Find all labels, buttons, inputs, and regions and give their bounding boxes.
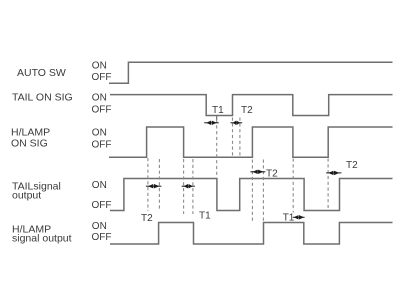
tick below TAIL ON SIG off line: [216, 116, 218, 120]
svg-text:ON: ON: [92, 180, 107, 191]
waveform H/LAMP ON SIG: [109, 127, 393, 157]
svg-text:signal output: signal output: [12, 233, 72, 245]
arrow pair P7 T1 bottom right: [293, 215, 305, 219]
waveform H/LAMP signal output: [110, 223, 393, 245]
svg-text:T2: T2: [141, 213, 153, 224]
arrow pair P4 T1 mid: [182, 184, 195, 188]
svg-text:T2: T2: [241, 105, 253, 116]
dashed line D x=192.9: [192, 159, 194, 214]
svg-text:TAIL ON SIG: TAIL ON SIG: [12, 92, 73, 104]
waveform TAIL ON SIG: [110, 95, 393, 116]
waveform TAIL signal output: [110, 179, 393, 211]
arrow pair P1 T1 row2: [204, 121, 219, 125]
svg-text:OFF: OFF: [92, 139, 112, 150]
waveform AUTO SW: [109, 62, 393, 83]
svg-text:T1: T1: [199, 211, 211, 222]
svg-text:OFF: OFF: [92, 200, 112, 211]
svg-text:ON: ON: [92, 61, 107, 72]
svg-text:T2: T2: [346, 160, 358, 171]
svg-text:OFF: OFF: [92, 105, 112, 116]
dashed line E x=216.7: [216, 120, 218, 178]
svg-text:OFF: OFF: [92, 72, 112, 83]
svg-text:ON: ON: [92, 127, 107, 138]
dashed line C x=183.6: [183, 159, 185, 214]
dashed line F x=232.5: [232, 118, 234, 158]
svg-text:AUTO SW: AUTO SW: [17, 67, 66, 79]
arrow pair P2 T2 row2: [231, 121, 243, 125]
dashed line A x=147.9: [147, 158, 149, 211]
arrow pair P5 T2 mid-right: [250, 170, 265, 174]
dashed line G x=239.9: [239, 118, 241, 158]
svg-text:OFF: OFF: [92, 232, 112, 243]
dashed line K x=293.2: [292, 159, 294, 213]
dashed line B x=159.4: [158, 159, 160, 211]
svg-text:T1: T1: [212, 105, 224, 116]
dashed line I x=263.4: [262, 160, 264, 222]
svg-text:ON: ON: [92, 92, 107, 103]
svg-text:T2: T2: [266, 168, 278, 179]
arrow pair P3 T2 mid-left: [146, 184, 162, 188]
svg-text:T1: T1: [283, 212, 295, 223]
svg-text:output: output: [12, 190, 41, 202]
dashed line H x=252.4: [251, 160, 253, 224]
arrow pair P6 T2 far right: [326, 171, 341, 175]
svg-text:ON: ON: [92, 221, 107, 232]
svg-text:ON SIG: ON SIG: [11, 138, 48, 150]
dashed line J x=328.1: [327, 159, 329, 211]
